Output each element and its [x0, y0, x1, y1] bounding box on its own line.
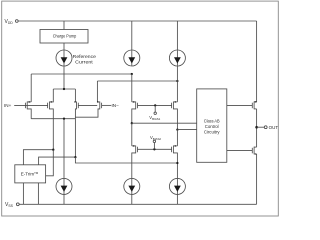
svg-text:IN+: IN+ [4, 103, 12, 108]
current source I3 (top right) [169, 50, 185, 66]
transistor M4 (IN- outer, leads left) [101, 103, 103, 109]
wire bus M1-drain to I2 column (y=74) [31, 73, 132, 75]
wire right cascode column mid [176, 130, 178, 146]
svg-text:IN−: IN− [112, 103, 120, 108]
wire input pair bottom bus (y=118.7) [31, 118, 75, 120]
node VDD terminal [15, 20, 18, 23]
wire M2 drain down to e-trim right side [46, 150, 54, 176]
current source I2 (top middle) [124, 50, 140, 66]
node junction left cascode mid (W1) [131, 122, 133, 124]
node VBIAS1 terminal [154, 112, 156, 114]
node VBIAS1 junction [154, 104, 156, 106]
node junction right cascode mid (W2) [176, 128, 178, 130]
node junction M2 drain / e-trim leg1 [52, 149, 54, 151]
svg-text:E-TrimTM: E-TrimTM [21, 171, 39, 176]
node junction I2 column / y74 bus [131, 73, 133, 75]
current source I4 (bottom left) [56, 178, 72, 194]
current source I1 (reference current) [56, 50, 72, 66]
node bottom bus junction to I4 [63, 118, 65, 120]
border frame [2, 1, 279, 216]
wire bottom rail VSS [19, 203, 256, 205]
svg-text:Circuitry: Circuitry [204, 130, 221, 135]
svg-text:VDD: VDD [5, 19, 14, 25]
wire input pair tail bus (y=89) [53, 88, 75, 90]
wire I6 to bottom rail [176, 194, 178, 204]
wire bottom bus down to I4 [63, 119, 65, 179]
wire I3 column down to M6 [176, 66, 178, 102]
svg-text:VSS: VSS [5, 202, 14, 208]
node VBIAS2 terminal [153, 140, 155, 142]
wire through I1 [63, 50, 65, 65]
wire VBIAS2 stem [153, 143, 155, 150]
transistor M5 (cascode left top, leads left) [137, 103, 139, 109]
svg-text:Reference: Reference [73, 54, 97, 59]
node IN+ label wire [14, 104, 47, 106]
wire charge pump to reference current source [63, 43, 65, 50]
wire W1 to class AB box [132, 122, 197, 124]
wire M4-drain bus to right column (y=80.7) [97, 80, 177, 82]
current source I5 (bottom middle) [124, 178, 140, 194]
node junction right column / y80.7 bus [176, 80, 178, 82]
node junction right column / stepped bus [176, 162, 178, 164]
svg-text:VBIAS1: VBIAS1 [149, 115, 160, 121]
transistor M8 (cascode right bottom, leads right) [171, 147, 173, 153]
transistor M7 (cascode left bottom, leads left) [137, 147, 139, 153]
svg-text:Charge Pump: Charge Pump [53, 34, 77, 39]
transistor Q1 output PMOS [251, 103, 253, 109]
wire top rail stub to I3 [176, 21, 178, 50]
wire e-trim leg1 riser [23, 150, 53, 165]
svg-text:Class AB: Class AB [204, 118, 220, 123]
current source I1 arrow [61, 57, 68, 63]
wire PMOS drain to OUT node [256, 109, 258, 147]
svg-text:OUT: OUT [269, 125, 279, 130]
wire e-trim leg2 riser [39, 157, 76, 165]
node junction M3 drain / e-trim leg2 [74, 156, 76, 158]
wire I2 column down to M5 [131, 74, 133, 102]
wire M4 gate to IN- label [102, 104, 112, 106]
wire top rail stub to I2 [131, 21, 133, 50]
transistor M6 (cascode right top, leads right) [171, 103, 173, 109]
charge pump box [40, 30, 88, 44]
transistor M3 (IN- inner, leads left) [77, 103, 79, 109]
wire VBIAS2 gate bus [138, 148, 172, 150]
wire W2 to class AB box [177, 129, 196, 131]
wire I1 to input pair tail node [63, 66, 65, 89]
node OUT junction [255, 126, 258, 129]
wire VBIAS1 gate bus [138, 104, 172, 106]
node tail junction [63, 88, 65, 90]
node OUT terminal [264, 126, 267, 129]
node VSS terminal [16, 203, 19, 206]
wire right rail (V+ to output PMOS) [254, 21, 257, 102]
wire I4 to bottom rail [63, 194, 65, 204]
wire OUT node to terminal [257, 126, 265, 128]
wire M3 gate to M4 drain column [78, 104, 97, 106]
wire e-trim ground legs [22, 183, 24, 204]
wire I5 to bottom rail [131, 194, 133, 204]
svg-text:Control: Control [205, 124, 219, 129]
transistor Q2 output NMOS [251, 148, 253, 154]
class AB control circuitry box [197, 89, 227, 162]
node VBIAS2 junction [153, 148, 155, 150]
current source I6 (bottom right) [169, 178, 185, 194]
wire VBIAS1 stem [154, 105, 156, 112]
wire top rail VDD [18, 20, 256, 22]
transistor M2 (IN+ inner, leads right) [47, 103, 49, 109]
wire M1 drain vertical [30, 74, 32, 102]
e-trim box [15, 165, 46, 183]
transistor M1 (IN+ outer, leads right) [24, 103, 26, 109]
wire charge pump top stub [63, 21, 65, 30]
svg-text:VBIAS2: VBIAS2 [150, 135, 161, 141]
wire stepped bus to right column [75, 157, 177, 163]
svg-text:Current: Current [75, 60, 93, 65]
wire left cascode column mid [131, 123, 133, 146]
wire NMOS source to bottom rail [256, 154, 258, 204]
wire class AB to output NMOS gate [227, 149, 253, 151]
wire class AB to output PMOS gate [227, 104, 253, 106]
